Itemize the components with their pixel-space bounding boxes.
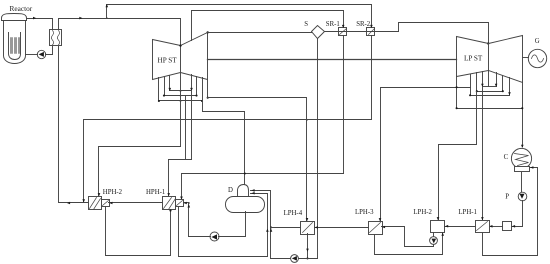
svg-text:HP ST: HP ST	[158, 56, 178, 64]
svg-text:LPH-1: LPH-1	[458, 209, 477, 216]
HP bracket 1	[170, 90, 192, 92]
arrow on main steam line	[79, 17, 82, 20]
wire HPH-1 drain to deaerator	[179, 194, 268, 257]
feed pump	[210, 232, 219, 241]
wire S to SR-2 through line	[325, 31, 399, 33]
wire extraction 3 to deaerator	[203, 101, 245, 185]
LP corner exhaust drops	[456, 77, 458, 109]
node crossing LPH-4 steam	[306, 119, 308, 121]
svg-text:S: S	[304, 21, 308, 28]
svg-text:LPH-3: LPH-3	[355, 209, 374, 216]
wire HP extraction to SR-1	[192, 11, 344, 41]
wire HP exhaust to separator	[208, 32, 312, 34]
arrow LP exhaust into condenser	[521, 145, 524, 148]
wire extraction taps to header	[169, 91, 192, 160]
wire LPH-4 feed riser to D	[251, 191, 271, 259]
LPH-2 drain pump	[433, 233, 435, 247]
LP gland drops right	[497, 73, 510, 96]
wire LP extraction 2 to LPH-2	[439, 92, 477, 220]
turbine HP ST	[153, 40, 181, 80]
wire feedwater LPH-4 to riser	[271, 227, 301, 229]
wire SG primary return to pump	[46, 47, 53, 55]
HP center exhaust drop	[180, 73, 182, 147]
wire feedwater D to HPH-1	[184, 202, 189, 204]
generator G	[528, 49, 546, 67]
HP bracket 3	[159, 100, 203, 102]
wire LPH-1 drain to condenser	[483, 168, 538, 256]
svg-text:SR-2: SR-2	[356, 21, 371, 28]
wire SR-1 drain	[343, 36, 345, 174]
node main steam branch	[106, 17, 108, 19]
svg-text:SR-1: SR-1	[326, 21, 340, 28]
shaft to generator	[523, 57, 529, 59]
svg-text:HPH-2: HPH-2	[103, 189, 123, 196]
node HP inlet	[179, 44, 181, 46]
LP bracket 1	[483, 86, 497, 88]
wire feedwater LPH-1 to LPH-2	[445, 226, 476, 228]
wire LP extraction 3 to LPH-3	[381, 88, 471, 221]
wire condensate P to gland cooler	[512, 201, 523, 227]
arrow up on live steam branch	[106, 4, 109, 7]
wire heater drain header to HPH-1 small	[182, 174, 344, 200]
nodes center drop crossings	[180, 90, 182, 92]
arrow on reactor outlet	[33, 17, 36, 20]
svg-text:D: D	[228, 187, 233, 194]
wire LPH-3 drain to LPH-2	[375, 233, 443, 255]
svg-text:G: G	[535, 38, 540, 45]
wire hotwell to pump P	[521, 173, 523, 192]
svg-text:HPH-1: HPH-1	[146, 189, 165, 196]
wire HP exhaust drain to LPH-4	[208, 98, 307, 221]
HP gland drops left	[159, 76, 170, 101]
separator S	[312, 26, 325, 39]
drain pump	[291, 255, 299, 263]
reactor vessel	[2, 14, 27, 64]
wire D outlet to feed pump	[219, 212, 246, 237]
steam generator heat exchanger	[50, 30, 62, 46]
pump P	[518, 192, 527, 201]
condenser hotwell	[515, 167, 530, 172]
wire LP extraction 1 to LPH-1	[482, 87, 484, 220]
LP bracket 3	[471, 95, 510, 97]
svg-text:Reactor: Reactor	[10, 4, 33, 13]
reactor core hatching	[11, 38, 20, 54]
LP exhaust header	[457, 108, 523, 110]
gland steam cooler	[503, 222, 512, 231]
svg-text:P: P	[505, 193, 509, 200]
wire crossover HP to LP	[208, 59, 457, 61]
node feed junction	[188, 202, 190, 204]
svg-text:LPH-2: LPH-2	[413, 209, 432, 216]
reactor coolant pump	[37, 50, 45, 58]
wire live steam branch to SR-2	[107, 5, 372, 28]
reheater SR-1	[339, 28, 347, 36]
HP gland drops right	[192, 75, 208, 101]
node crossing exhaust drop	[456, 86, 458, 88]
wire reactor outlet to SG	[27, 19, 53, 30]
svg-text:LP ST: LP ST	[464, 55, 483, 63]
LP center drop	[488, 71, 490, 87]
wire center tap to HPH-2	[99, 147, 181, 196]
wire feedwater HPH-1 to HPH-2	[109, 202, 163, 204]
condenser C	[511, 148, 531, 168]
node drain junction at deaerator feed	[244, 172, 246, 174]
LP gland drops left	[471, 72, 483, 96]
wire feed pump riser	[188, 203, 190, 237]
wire S drain down	[317, 39, 319, 259]
wire SR-2 drain to feed line	[84, 36, 372, 202]
reheater SR-2	[367, 28, 375, 36]
wire feed pump discharge	[189, 236, 211, 238]
wire header to HPH-1	[168, 160, 170, 196]
wire drain pump line	[271, 258, 318, 260]
node HP exhaust drain corner	[207, 97, 209, 99]
wire main steam SG to HP turbine	[59, 19, 181, 46]
wire HPH-2 drain to HPH-1	[106, 207, 171, 256]
turbine LP ST	[457, 37, 489, 77]
wire feedwater LPH-2 to LPH-3	[382, 227, 434, 247]
node LP inlet	[487, 42, 489, 44]
wire cooler to LPH-1	[489, 226, 503, 228]
LP bracket 2	[477, 91, 503, 93]
wire hot reheat to LP turbine	[399, 23, 489, 44]
svg-text:C: C	[504, 154, 509, 161]
wire pump to reactor	[26, 54, 38, 56]
HP bracket 2	[165, 95, 197, 97]
wire feedwater LPH-3 to LPH-4	[315, 227, 369, 229]
wire LPH-4 drain	[307, 234, 309, 259]
arrow feedwater to SG	[67, 202, 70, 205]
node HP exhaust corner	[207, 31, 209, 33]
svg-text:LPH-4: LPH-4	[284, 210, 303, 217]
SG coil waves	[51, 31, 59, 45]
wire SG feedwater downcomer	[59, 47, 89, 203]
